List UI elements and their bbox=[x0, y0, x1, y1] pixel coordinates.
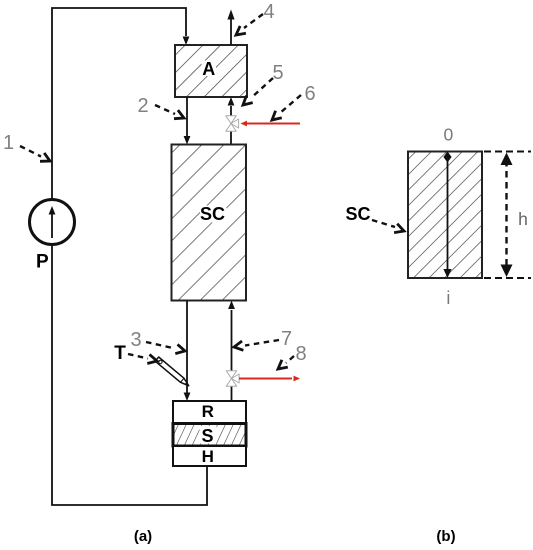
wire top loop: pump riser, top run, drop into A bbox=[52, 8, 186, 200]
svg-text:i: i bbox=[446, 288, 450, 308]
svg-text:(b): (b) bbox=[436, 528, 455, 545]
svg-text:6: 6 bbox=[304, 83, 315, 105]
dashed arrow 2 bbox=[155, 105, 175, 114]
stack section S (hatched, thick border) bbox=[173, 424, 246, 447]
dashed arrow SC (b) bbox=[372, 220, 395, 227]
pump internal arrow bbox=[51, 214, 53, 238]
dashed arrow 5 bbox=[251, 78, 273, 98]
svg-text:SC: SC bbox=[200, 204, 225, 224]
svg-text:SC: SC bbox=[345, 204, 370, 224]
svg-text:1: 1 bbox=[3, 132, 14, 154]
box A (hatched) bbox=[175, 45, 247, 97]
svg-text:A: A bbox=[202, 59, 215, 79]
thermometer T probe bbox=[155, 357, 190, 388]
wire A bottom to SC top (left pipe) bbox=[186, 97, 188, 136]
svg-text:S: S bbox=[201, 426, 213, 446]
red outlet arrow at V2 bbox=[239, 378, 292, 380]
svg-text:(a): (a) bbox=[134, 528, 152, 545]
svg-text:3: 3 bbox=[130, 329, 141, 351]
svg-text:R: R bbox=[202, 402, 214, 421]
dashed arrow 1 bbox=[20, 146, 41, 157]
solar collector SC (hatched) bbox=[172, 145, 247, 301]
pump P circle bbox=[30, 200, 75, 245]
dashed arrow 8 bbox=[286, 356, 294, 363]
wire bottom loop: H outlet, bottom run, pump return bbox=[52, 245, 207, 505]
wire SC top to valve V1 to A bottom (right pipe) bbox=[230, 132, 232, 145]
svg-text:P: P bbox=[36, 252, 49, 273]
dashed arrow from T bbox=[128, 354, 148, 359]
stack section H bbox=[173, 446, 246, 466]
dashed arrow 7 bbox=[245, 340, 279, 346]
wire stack top to valve V2 to SC bottom (right pipe) bbox=[231, 386, 233, 401]
valve V1 (3-way) bbox=[226, 116, 239, 131]
svg-text:T: T bbox=[114, 343, 126, 364]
internal height arrow (double-headed) bbox=[447, 155, 449, 271]
dashed arrow 4 bbox=[244, 14, 263, 28]
part (b): SC box (hatched) bbox=[408, 152, 482, 279]
dashed height dimension h (double-headed) bbox=[505, 160, 507, 270]
arrowhead into A top bbox=[183, 37, 190, 46]
valve V2 (3-way) bbox=[226, 371, 239, 386]
svg-text:8: 8 bbox=[295, 343, 306, 365]
dashed extension line bottom bbox=[484, 277, 531, 279]
svg-text:2: 2 bbox=[137, 95, 148, 117]
svg-text:H: H bbox=[202, 447, 214, 466]
svg-text:7: 7 bbox=[281, 328, 292, 350]
arrow out of A top bbox=[230, 18, 232, 45]
red inlet arrow at V1 bbox=[247, 123, 300, 125]
svg-text:5: 5 bbox=[272, 62, 283, 84]
svg-text:0: 0 bbox=[444, 125, 454, 145]
svg-text:4: 4 bbox=[263, 1, 274, 23]
dashed arrow 3 bbox=[146, 342, 175, 349]
dashed arrow 6 bbox=[280, 95, 301, 113]
wire SC bottom to stack top (left pipe) bbox=[186, 301, 188, 394]
dashed extension line top bbox=[484, 151, 531, 153]
svg-text:h: h bbox=[518, 209, 528, 229]
stack section R bbox=[173, 401, 246, 424]
